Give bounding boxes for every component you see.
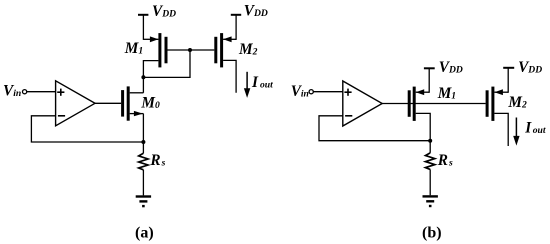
terminal Vin (b) bbox=[309, 90, 313, 94]
ground (b) bbox=[423, 196, 438, 206]
node Rs top junction (a) bbox=[141, 140, 145, 144]
node Rs top junction (b) bbox=[428, 139, 432, 143]
wire node to resistor (a) bbox=[142, 142, 144, 153]
resistor Rs (a) bbox=[139, 153, 148, 170]
power VDD bar right (b) bbox=[503, 67, 514, 69]
wire Vin to op-amp noninverting input (b) bbox=[313, 91, 343, 93]
resistor Rs (b) bbox=[426, 153, 435, 170]
node M1 drain junction (a) bbox=[141, 75, 145, 79]
terminal Vin (a) bbox=[23, 90, 27, 94]
wire M1 source to VDD (b) bbox=[428, 68, 430, 93]
op-amp minus symbol (a) bbox=[58, 115, 65, 117]
ground (a) bbox=[136, 197, 151, 207]
wire diode connection gate to drain of M1 (a) bbox=[144, 50, 190, 77]
power VDD bar left (b) bbox=[424, 67, 435, 69]
wire node to resistor (b) bbox=[429, 141, 431, 153]
node gate junction (a) bbox=[188, 48, 192, 52]
wire M2 source to VDD (a) bbox=[235, 15, 237, 40]
transistor M1 (PMOS, a) bbox=[143, 33, 166, 67]
transistor M2 (PMOS, a) bbox=[216, 33, 236, 67]
wire resistor to ground (a) bbox=[142, 170, 144, 196]
wire M1 source to VDD (a) bbox=[142, 15, 144, 40]
wire op-amp output to M0 gate (a) bbox=[95, 102, 121, 104]
op-amp A2 (b) bbox=[343, 81, 382, 126]
current arrow Iout (a) bbox=[244, 72, 250, 98]
wire gate bus M1 to M2 (a) bbox=[168, 49, 215, 51]
wire M0 drain up to mirror node (a) bbox=[142, 77, 144, 93]
wire M1 drain to Rs node (b) bbox=[416, 113, 431, 140]
svg-text:(a): (a) bbox=[135, 224, 154, 241]
wire M2 drain to output (b) bbox=[494, 113, 508, 146]
wire resistor to ground (b) bbox=[429, 169, 431, 195]
wire feedback from source node to inverting input (b) bbox=[319, 116, 430, 141]
op-amp plus symbol (b) bbox=[344, 89, 351, 96]
wire Vin to op-amp noninverting input (a) bbox=[27, 91, 56, 93]
wire M1 drain (a) bbox=[143, 61, 158, 78]
op-amp minus symbol (b) bbox=[345, 115, 352, 117]
transistor M1 (PMOS, b) bbox=[409, 87, 429, 121]
power VDD bar right (a) bbox=[231, 14, 241, 16]
op-amp plus symbol (a) bbox=[57, 89, 64, 96]
power VDD bar left (a) bbox=[138, 14, 148, 16]
wire M0 source down to Rs node (a) bbox=[142, 114, 144, 142]
op-amp A1 (a) bbox=[56, 81, 95, 126]
wire M2 source to VDD (b) bbox=[507, 68, 509, 93]
wire op-amp output gate bus to M1 and M2 gates (b) bbox=[382, 103, 485, 105]
current arrow Iout (b) bbox=[513, 118, 519, 146]
svg-text:(b): (b) bbox=[422, 225, 442, 242]
transistor M2 (PMOS, b) bbox=[487, 87, 508, 121]
transistor M0 (NMOS) bbox=[123, 86, 144, 120]
wire M2 drain to output (a) bbox=[223, 60, 236, 92]
wire feedback from source node to inverting input (a) bbox=[31, 116, 143, 142]
